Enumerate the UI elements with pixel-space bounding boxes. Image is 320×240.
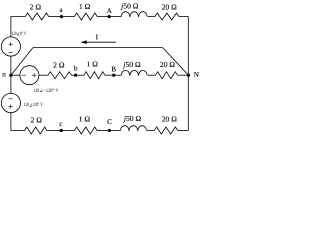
wire bottom-left corner xyxy=(11,113,25,131)
voltage source 120∠-120°V phase b xyxy=(20,66,59,94)
wire top-left corner xyxy=(11,17,25,37)
wire node C to inductor xyxy=(109,130,120,132)
svg-text:20 Ω: 20 Ω xyxy=(162,3,177,12)
resistor 2Ω line a source side xyxy=(25,2,48,20)
node c xyxy=(59,120,63,132)
wire neutral diagonal from node n xyxy=(11,48,33,76)
resistor 1Ω line a xyxy=(75,2,98,20)
svg-text:I: I xyxy=(96,34,99,42)
node A xyxy=(107,7,113,18)
wire 2Ω to node a xyxy=(49,16,62,18)
svg-text:120°: 120° xyxy=(33,102,39,108)
wire 1Ω to node A xyxy=(97,16,109,18)
wire neutral diagonal to node N xyxy=(163,48,189,76)
resistor 2Ω line b xyxy=(48,61,71,79)
svg-text:n: n xyxy=(2,70,6,78)
wire 2Ω to node c xyxy=(47,130,61,132)
node C xyxy=(107,118,112,132)
inductor j50Ω phase C xyxy=(121,114,147,131)
svg-text:C: C xyxy=(107,118,112,126)
svg-text:V: V xyxy=(24,31,27,37)
inductor j50Ω phase B xyxy=(121,60,147,75)
resistor 20Ω load phase C xyxy=(154,115,177,134)
wire node B to inductor xyxy=(114,74,122,76)
current arrow I xyxy=(80,34,116,44)
svg-text:c: c xyxy=(59,120,62,128)
wire 20Ω to node N xyxy=(178,74,189,76)
wire right vertical to node N and down xyxy=(187,17,189,131)
wire inductor to 20Ω phase B xyxy=(148,74,156,76)
svg-text:2 Ω: 2 Ω xyxy=(31,116,43,125)
wire 20Ω to top-right corner xyxy=(179,16,188,18)
node a xyxy=(59,6,63,18)
svg-text:A: A xyxy=(107,7,113,15)
node B xyxy=(111,65,116,76)
wire inductor to 20Ω phase C xyxy=(147,130,155,132)
voltage source 120∠120°V phase c xyxy=(1,93,43,112)
wire node n to lower source xyxy=(10,75,12,93)
wire source to 2Ω line b xyxy=(39,74,48,76)
svg-text:0°: 0° xyxy=(20,31,23,37)
voltage source 120∠0°V phase a xyxy=(1,31,27,56)
wire 2Ω to node b xyxy=(72,74,76,76)
inductor j50Ω phase A xyxy=(120,2,147,17)
resistor 20Ω load phase A xyxy=(155,3,179,20)
resistor 20Ω load phase B xyxy=(156,60,178,79)
wire 1Ω to node C xyxy=(97,130,109,132)
wire source to node n xyxy=(10,56,12,75)
resistor 2Ω line c xyxy=(25,116,47,135)
svg-text:120: 120 xyxy=(24,102,30,108)
svg-text:B: B xyxy=(111,65,116,73)
svg-text:j50 Ω: j50 Ω xyxy=(123,114,142,123)
wire node b to 1Ω xyxy=(76,74,84,76)
svg-text:j50 Ω: j50 Ω xyxy=(122,60,141,69)
svg-text:20 Ω: 20 Ω xyxy=(160,60,175,69)
svg-text:N: N xyxy=(194,71,200,79)
wire node n to source xyxy=(11,74,20,76)
svg-text:V: V xyxy=(40,102,43,108)
svg-text:2 Ω: 2 Ω xyxy=(30,2,42,11)
wire node c to 1Ω xyxy=(61,130,74,132)
wire neutral horizontal xyxy=(33,47,163,49)
wire node A to inductor xyxy=(109,16,121,18)
resistor 1Ω line b xyxy=(84,60,105,79)
wire 20Ω to bottom-right corner xyxy=(178,130,189,132)
svg-text:a: a xyxy=(59,6,63,14)
svg-text:1 Ω: 1 Ω xyxy=(87,60,99,69)
wire inductor to 20Ω phase A xyxy=(148,16,155,18)
svg-text:20 Ω: 20 Ω xyxy=(162,115,177,124)
svg-text:1 Ω: 1 Ω xyxy=(79,115,91,124)
node n xyxy=(2,70,12,78)
resistor 1Ω line c xyxy=(75,115,98,134)
node N xyxy=(187,71,200,79)
wire 1Ω to node B xyxy=(105,74,114,76)
svg-text:2 Ω: 2 Ω xyxy=(53,61,65,70)
svg-text:1 Ω: 1 Ω xyxy=(79,2,91,11)
svg-text:120: 120 xyxy=(34,88,40,94)
node b xyxy=(74,64,78,76)
svg-text:j50 Ω: j50 Ω xyxy=(120,2,139,11)
svg-text:120: 120 xyxy=(11,31,17,37)
svg-text:−120°: −120° xyxy=(44,88,55,94)
svg-text:b: b xyxy=(74,64,78,72)
wire node a to 1Ω xyxy=(62,16,75,18)
svg-text:V: V xyxy=(56,88,59,94)
